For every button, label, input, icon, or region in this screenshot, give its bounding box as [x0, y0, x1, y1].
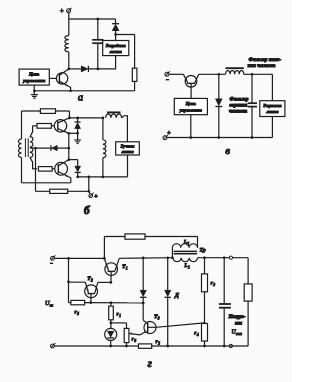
svg-text:+: +: [94, 194, 98, 200]
svg-text:Разрядная: Разрядная: [106, 43, 127, 48]
svg-text:Uвых: Uвых: [232, 330, 243, 336]
svg-text:1: 1: [188, 265, 190, 269]
svg-text:3: 3: [212, 283, 215, 287]
svg-text:зка: зка: [234, 321, 243, 327]
svg-text:них частот: них частот: [248, 63, 276, 69]
svg-text:−: −: [50, 262, 53, 267]
svg-text:Тр: Тр: [200, 248, 206, 254]
svg-text:2: 2: [157, 342, 160, 346]
svg-text:+: +: [60, 7, 64, 15]
svg-text:лампа: лампа: [265, 109, 279, 114]
svg-text:+: +: [167, 130, 171, 136]
svg-text:L: L: [183, 240, 187, 246]
svg-text:Фильтр: Фильтр: [230, 97, 249, 103]
svg-text:Ртутная: Ртутная: [263, 103, 282, 108]
svg-text:управления: управления: [179, 108, 203, 113]
svg-text:−: −: [166, 78, 169, 84]
svg-text:6: 6: [134, 339, 136, 343]
svg-text:лампа: лампа: [120, 149, 134, 154]
svg-text:2: 2: [90, 279, 93, 283]
svg-text:г: г: [148, 358, 152, 370]
svg-text:Ручная: Ручная: [121, 143, 136, 148]
svg-text:а: а: [78, 93, 83, 104]
svg-text:4: 4: [196, 333, 199, 337]
svg-text:в: в: [225, 145, 230, 157]
svg-text:5: 5: [77, 312, 79, 316]
svg-text:верхних: верхних: [229, 103, 247, 109]
svg-text:L: L: [183, 263, 187, 269]
svg-text:Нагруз-: Нагруз-: [227, 314, 245, 320]
svg-text:частот: частот: [229, 109, 247, 115]
svg-text:3: 3: [157, 317, 160, 321]
svg-text:1: 1: [119, 314, 121, 318]
svg-text:1: 1: [126, 267, 128, 271]
svg-text:Цепь: Цепь: [28, 72, 39, 77]
svg-text:лампа: лампа: [109, 49, 123, 54]
svg-text:управления: управления: [22, 78, 46, 83]
svg-text:Цепь: Цепь: [185, 101, 196, 106]
svg-text:2: 2: [186, 242, 189, 246]
